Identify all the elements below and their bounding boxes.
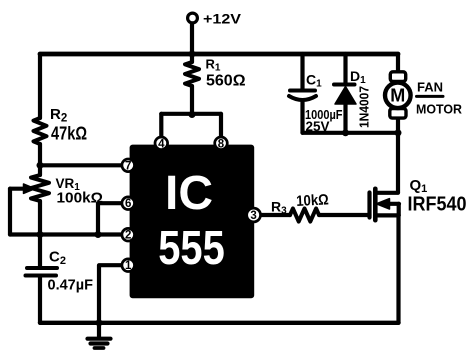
svg-text:1N4007: 1N4007 [357,86,372,128]
svg-text:2: 2 [125,230,131,242]
svg-text:7: 7 [125,160,131,172]
svg-text:100kΩ: 100kΩ [57,189,104,206]
svg-text:47kΩ: 47kΩ [51,124,87,144]
svg-text:+12V: +12V [203,12,241,27]
svg-text:1: 1 [125,260,132,272]
svg-text:IRF540: IRF540 [408,194,467,216]
svg-text:0.47µF: 0.47µF [48,278,94,294]
svg-text:4: 4 [158,138,165,150]
svg-text:555: 555 [158,221,225,275]
svg-text:25V: 25V [306,119,330,134]
svg-text:IC: IC [165,166,213,220]
svg-text:MOTOR: MOTOR [416,102,463,117]
svg-text:FAN: FAN [417,80,443,95]
svg-text:8: 8 [218,138,225,150]
svg-text:10kΩ: 10kΩ [296,191,329,210]
svg-text:560Ω: 560Ω [206,73,246,90]
svg-text:3: 3 [250,210,256,222]
svg-text:6: 6 [125,198,131,210]
svg-text:M: M [390,86,405,106]
